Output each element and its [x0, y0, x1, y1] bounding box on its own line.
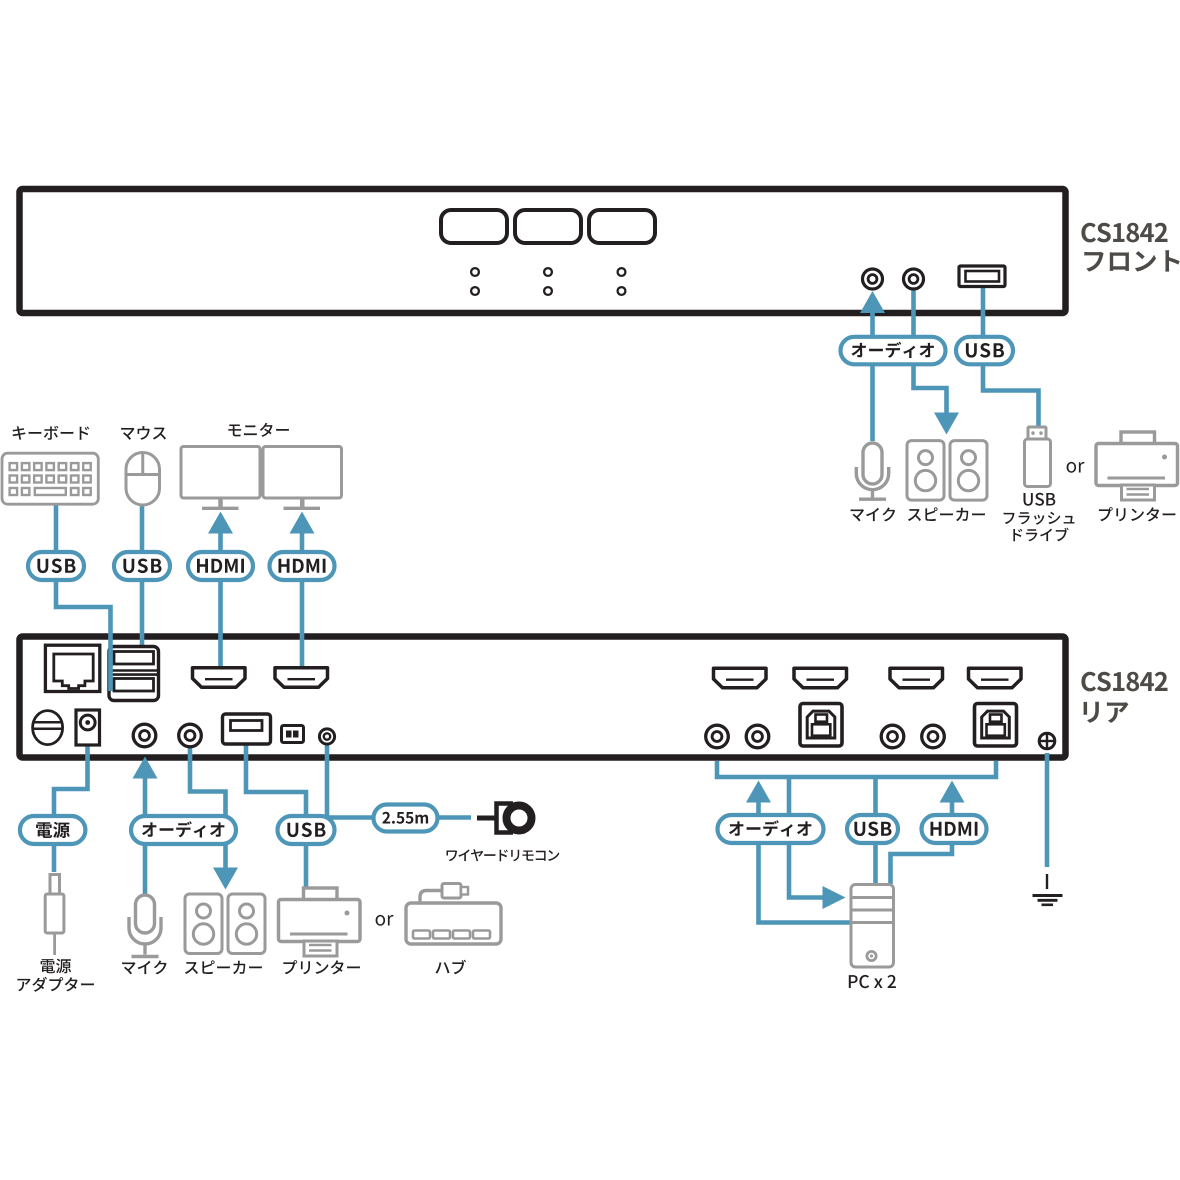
wire monitor2 HDMI	[300, 532, 305, 667]
label pill audio bottom-right	[718, 815, 824, 843]
text HDMI pill PC	[931, 822, 978, 836]
text 2.55m pill	[382, 812, 428, 824]
front speaker jack	[904, 269, 924, 289]
rear audio jack PC 1	[706, 725, 729, 748]
power adapter icon	[45, 875, 64, 956]
arrowhead to monitor2	[290, 512, 315, 534]
text audio pill front	[852, 342, 934, 358]
text CS1842 rear	[1081, 672, 1167, 692]
text HDMI pill monitor1	[197, 559, 244, 573]
wire USB to PC	[873, 779, 878, 884]
rear HDMI port 1	[193, 668, 246, 688]
front panel CS1842	[20, 189, 1066, 313]
rear HDMI port 2	[275, 668, 328, 688]
text rear label	[1083, 702, 1128, 723]
text USB pill bottom-left	[287, 823, 325, 838]
rear thumbscrew	[33, 711, 63, 745]
label pill audio front	[841, 337, 946, 365]
text speaker label bottom	[185, 960, 262, 974]
text PC x 2 label	[849, 975, 896, 988]
rear HDMI port 4	[794, 668, 847, 688]
text front label	[1084, 250, 1179, 271]
text power adapter line2	[17, 977, 94, 992]
front USB port	[959, 266, 1005, 287]
wire monitor1 HDMI	[218, 532, 223, 667]
front pushbutton 3	[589, 210, 655, 243]
keyboard icon	[2, 453, 98, 504]
microphone icon top	[856, 443, 888, 499]
ground symbol	[1033, 874, 1063, 905]
text USB flash line1	[1024, 493, 1056, 506]
wire audio to PC lower	[759, 802, 852, 923]
bracket wire PC group	[717, 761, 996, 777]
label pill HDMI monitor1	[188, 552, 253, 580]
wire DC jack to power adapter	[54, 744, 88, 872]
text mic label bottom	[122, 960, 167, 974]
PC tower icon	[851, 885, 894, 968]
USB flash drive icon	[1025, 427, 1051, 487]
text wired remote label	[446, 849, 559, 861]
rear USB-B PC1 port	[800, 704, 842, 747]
printer icon bottom	[279, 888, 361, 956]
front LED indicators	[471, 268, 625, 295]
text or bottom	[376, 915, 394, 926]
printer icon top	[1096, 432, 1178, 500]
wire grounding	[1045, 753, 1050, 867]
arrowhead to speakers top	[934, 413, 959, 435]
text power adapter line1	[41, 959, 72, 974]
text mic label top	[851, 507, 896, 521]
text printer label top	[1099, 507, 1176, 521]
wired remote icon	[477, 802, 535, 834]
arrowhead into PC	[823, 886, 846, 909]
rear remote wire port	[319, 729, 334, 744]
label pill 2.55m	[374, 805, 438, 832]
mouse icon	[126, 453, 160, 506]
rear mic jack	[133, 724, 156, 747]
USB hub icon	[406, 884, 501, 945]
text USB pill bottom-right	[854, 822, 891, 837]
text USB flash line2	[1004, 512, 1075, 525]
monitor 1 icon	[181, 447, 260, 509]
wire rear mic jack	[143, 777, 148, 894]
text USB pill keyboard	[37, 559, 75, 574]
wire front mic jack	[870, 311, 875, 441]
microphone icon bottom	[129, 895, 161, 957]
monitor 2 icon	[263, 447, 342, 509]
label pill USB keyboard	[28, 552, 84, 580]
rear RJ45 remote port	[45, 645, 99, 691]
rear audio jack PC 2	[746, 725, 769, 748]
text or top	[1067, 462, 1085, 473]
rear USB keyboard/mouse ports	[109, 647, 159, 701]
text power pill	[36, 822, 70, 838]
rear DC power jack	[76, 710, 100, 745]
label pill USB bottom-right	[847, 815, 898, 843]
wire rear USB to printer	[246, 744, 306, 887]
text CS1842 front	[1081, 223, 1167, 243]
rear audio jack PC 3	[881, 725, 904, 748]
text HDMI pill monitor2	[279, 559, 326, 573]
text speaker label top	[908, 507, 985, 521]
label pill audio bottom-left	[131, 816, 236, 844]
label pill USB mouse	[114, 552, 170, 580]
rear grounding screw	[1039, 733, 1055, 749]
front pushbutton 1	[441, 210, 507, 243]
arrowhead to monitor1	[208, 512, 233, 534]
label pill power	[20, 816, 86, 844]
text mouse label	[121, 426, 166, 440]
label pill USB bottom-left	[278, 816, 335, 844]
text keyboard label	[13, 426, 90, 440]
rear speaker jack	[179, 724, 202, 747]
arrowhead to speakers bottom	[213, 868, 238, 890]
rear DCC switch	[282, 726, 304, 743]
rear HDMI port 3	[714, 668, 767, 688]
rear HDMI port 5	[890, 668, 943, 688]
label pill USB front	[956, 337, 1013, 365]
arrowhead audio up to bracket	[746, 781, 771, 803]
arrowhead to front mic jack	[860, 291, 885, 313]
wire HDMI to PC	[891, 802, 953, 884]
wire mouse to rear USB port	[140, 506, 145, 647]
text audio pill bottom-right	[729, 820, 811, 836]
rear panel CS1842	[20, 637, 1066, 758]
wire remote port to 2.55m	[327, 744, 374, 818]
speakers icon bottom	[185, 894, 265, 954]
wire bracket to PC arrow	[789, 779, 823, 898]
arrowhead to rear mic jack	[133, 757, 158, 779]
wire front speaker jack	[914, 288, 947, 414]
speakers icon top	[907, 441, 987, 501]
text audio pill bottom-left	[142, 821, 224, 837]
label pill HDMI monitor2	[270, 552, 335, 580]
text USB pill front	[966, 343, 1004, 358]
wire front USB to flash drive	[983, 287, 1039, 427]
front mic jack	[863, 269, 883, 289]
rear USB peripheral port	[223, 714, 271, 744]
rear HDMI port 6	[969, 668, 1022, 688]
wire keyboard to rear USB port	[56, 504, 111, 691]
rear audio jack PC 4	[922, 725, 945, 748]
text USB pill mouse	[123, 559, 161, 574]
text monitor label	[228, 423, 289, 437]
rear USB-B PC2 port	[975, 704, 1017, 747]
label pill HDMI PC	[922, 815, 987, 843]
text USB flash line3	[1013, 528, 1068, 542]
text hub label	[436, 960, 467, 975]
wire rear speaker jack to speakers	[190, 746, 226, 868]
arrowhead HDMI up to bracket	[940, 781, 965, 803]
front pushbutton 2	[515, 210, 581, 243]
wire 2.55m to wired remote	[437, 815, 471, 820]
text printer label bottom	[283, 960, 360, 974]
